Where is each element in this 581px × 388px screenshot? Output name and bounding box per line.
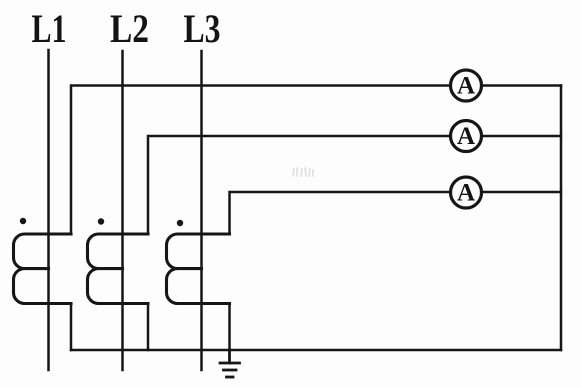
wire: bus 1 (ammeter P1 circuit, top horizontal) <box>71 86 561 235</box>
svg-text:L3: L3 <box>184 6 221 51</box>
polarity dot TA2 <box>98 218 104 224</box>
faint watermark smudge (noise in source) <box>293 168 313 176</box>
wire: CT2 secondary bottom lead drop <box>147 304 150 351</box>
wire: bottom return bus <box>71 349 561 352</box>
wire: CT1 secondary bottom lead drop <box>70 304 73 351</box>
polarity dot TA3 <box>177 220 183 226</box>
current transformer TA3 secondary winding <box>167 234 230 304</box>
svg-text:L2: L2 <box>110 6 149 51</box>
wire: bus 2 (ammeter P2 circuit) <box>148 136 561 234</box>
svg-text:L1: L1 <box>32 6 67 51</box>
ground <box>220 350 240 377</box>
ammeter P3 <box>451 177 482 208</box>
wire: right vertical return <box>560 86 563 351</box>
wire: phase line L1 <box>47 50 50 370</box>
wire: CT3 secondary bottom lead drop <box>228 304 231 351</box>
polarity dot TA1 <box>20 218 26 224</box>
ammeter P2 <box>451 121 482 152</box>
ammeter P1 <box>451 70 482 101</box>
svg-text:A: A <box>457 180 475 207</box>
svg-text:A: A <box>457 73 475 100</box>
current transformer TA2 secondary winding <box>88 234 149 304</box>
wire: phase line L2 <box>121 51 124 370</box>
current transformer TA1 secondary winding <box>14 234 72 304</box>
wire: phase line L3 <box>200 51 203 370</box>
svg-text:A: A <box>457 123 475 150</box>
wire: bus 3 (ammeter P3 circuit) <box>230 192 562 234</box>
